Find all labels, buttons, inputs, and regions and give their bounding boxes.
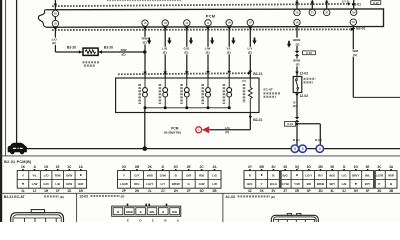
svg-text:R: R bbox=[249, 173, 252, 177]
PCM pin 1L bbox=[205, 20, 211, 26]
connector pinout table PCM(2) columns 2A-2P bbox=[118, 165, 222, 193]
svg-text:W/Y: W/Y bbox=[329, 182, 335, 186]
PCM pin 2M (x=354) bbox=[351, 9, 357, 15]
label EC-AT solenoid valve bbox=[264, 87, 281, 96]
PCM pin 1R (bottom x=297) bbox=[294, 19, 300, 25]
svg-text:LG/Y: LG/Y bbox=[146, 182, 153, 186]
svg-text:1D: 1D bbox=[67, 189, 72, 193]
svg-text:2D: 2D bbox=[200, 189, 205, 193]
divider before A1-03 panel bbox=[222, 193, 224, 222]
svg-text:A1-03: A1-03 bbox=[225, 195, 235, 199]
label B2-01 (top right) bbox=[352, 3, 361, 7]
svg-text:A: A bbox=[177, 219, 180, 222]
svg-text:5: 5 bbox=[294, 147, 296, 151]
PCM pin 1P bbox=[247, 19, 253, 25]
svg-text:1U: 1U bbox=[352, 21, 355, 24]
solenoid coil shift solenoid C bbox=[184, 78, 189, 108]
svg-text:3Q: 3Q bbox=[295, 165, 300, 169]
svg-text:(E): (E) bbox=[52, 41, 56, 45]
svg-text:B/W: B/W bbox=[66, 173, 72, 177]
svg-text:B: B bbox=[140, 210, 142, 214]
wire label B (F) bbox=[293, 101, 297, 108]
svg-text:BR: BR bbox=[307, 182, 312, 186]
svg-text:1R: 1R bbox=[295, 21, 298, 24]
wire label L/W bbox=[204, 47, 212, 55]
svg-text:P: P bbox=[378, 182, 380, 186]
connector B2-01 dashed boundary (top) bbox=[52, 2, 351, 6]
flow arrow beside L/B bbox=[167, 38, 171, 45]
svg-text:L/O: L/O bbox=[44, 173, 50, 177]
svg-text:(E): (E) bbox=[353, 53, 357, 57]
svg-text:3I: 3I bbox=[343, 165, 346, 169]
svg-text:(E): (E) bbox=[60, 195, 64, 199]
svg-text:3N: 3N bbox=[318, 189, 323, 193]
svg-text:1E: 1E bbox=[56, 165, 60, 169]
svg-text:R/Y: R/Y bbox=[318, 173, 323, 177]
svg-text:1G: 1G bbox=[44, 165, 49, 169]
wire label Y/L bbox=[225, 47, 233, 55]
svg-text:Y: Y bbox=[261, 182, 263, 186]
svg-text:2L: 2L bbox=[148, 189, 152, 193]
wire solenoid common to ground bbox=[144, 108, 146, 149]
svg-text:Y/W: Y/W bbox=[294, 182, 300, 186]
wire R/W PCM to solenoid valve (x=145.0) bbox=[143, 27, 147, 78]
svg-text:1A: 1A bbox=[79, 165, 84, 169]
ground point 4 bbox=[316, 145, 323, 152]
caption text fragment (top, component continuation) bbox=[107, 0, 182, 2]
svg-text:3O: 3O bbox=[307, 165, 312, 169]
svg-text:1P: 1P bbox=[249, 22, 252, 25]
label B2-21 (bottom) bbox=[253, 118, 262, 122]
svg-text:R/B: R/B bbox=[150, 210, 155, 214]
solenoid common ground bus bbox=[144, 106, 231, 109]
svg-text:R/B: R/B bbox=[199, 173, 205, 177]
svg-text:(E): (E) bbox=[184, 50, 188, 54]
wire L/W PCM to solenoid valve (x=208.0) bbox=[206, 27, 210, 78]
svg-text:G/Y B): G/Y B) bbox=[342, 0, 350, 3]
resistor R1 dropping resistor (B2-20) bbox=[83, 48, 98, 55]
wire Y/B from top into PCM (x=297) bbox=[295, 0, 299, 9]
label lockup solenoid (vertical Japanese) bbox=[223, 84, 226, 104]
svg-text:(E): (E) bbox=[271, 195, 275, 199]
solenoid coil shift solenoid B bbox=[163, 78, 168, 108]
section label B2-01 PCM(B) bbox=[4, 160, 32, 164]
svg-text:G: G bbox=[187, 182, 190, 186]
svg-text:B2-01 PCM(B): B2-01 PCM(B) bbox=[4, 160, 32, 164]
svg-text:B2-01: B2-01 bbox=[356, 27, 365, 31]
svg-text:1L: 1L bbox=[21, 189, 25, 193]
flow arrow beside R/W bbox=[147, 38, 151, 45]
svg-text:12-02: 12-02 bbox=[300, 94, 309, 98]
svg-text:3S: 3S bbox=[283, 165, 287, 169]
svg-text:PCM: PCM bbox=[206, 13, 215, 18]
svg-text:D: D bbox=[139, 219, 142, 222]
PCM pin 2S (top x=297) bbox=[294, 9, 300, 15]
svg-text:G/W: G/W bbox=[199, 182, 205, 186]
svg-text:R/G: R/G bbox=[134, 182, 140, 186]
svg-text:X-21: X-21 bbox=[287, 122, 293, 126]
svg-text:3P: 3P bbox=[307, 189, 312, 193]
wire G/O PCM to solenoid valve (x=186.8) bbox=[185, 27, 189, 78]
pin letters 12-02 table bbox=[127, 219, 180, 223]
wire label BR/B (F) bbox=[292, 58, 301, 66]
connector B2-21 dashed boundary bbox=[118, 71, 251, 74]
svg-text:2K: 2K bbox=[148, 165, 153, 169]
wire label L/B bbox=[161, 47, 169, 55]
svg-text:3W: 3W bbox=[259, 165, 264, 169]
ground point 5 bbox=[291, 145, 298, 152]
solenoid coil lockup solenoid bbox=[227, 78, 232, 108]
svg-text:2: 2 bbox=[198, 128, 200, 132]
wire label R/W bbox=[141, 37, 149, 45]
svg-text:1I: 1I bbox=[33, 165, 36, 169]
wire label R/W (mid) bbox=[121, 48, 127, 56]
svg-text:(E): (E) bbox=[296, 42, 300, 46]
svg-text:BR/W: BR/W bbox=[172, 182, 180, 186]
label B2-21 (top of solenoid box) bbox=[253, 72, 262, 76]
svg-text:W/G: W/G bbox=[329, 173, 336, 177]
svg-text:3Z: 3Z bbox=[248, 189, 252, 193]
svg-text:2F: 2F bbox=[187, 189, 191, 193]
section label B2-21 EC-AT solenoid valve (E) bbox=[4, 195, 64, 199]
label pressure control solenoid (vertical Japanese) bbox=[201, 84, 204, 104]
wire body-ground feed (x=16.5) bbox=[16, 0, 18, 145]
svg-text:B2-21: B2-21 bbox=[253, 118, 262, 122]
label PCM 1B-2B(KTM) bbox=[164, 126, 181, 134]
flow arrow beside L/W bbox=[210, 38, 214, 45]
label ATF thermosensor (vertical Japanese) bbox=[242, 80, 247, 103]
svg-text:B/LG: B/LG bbox=[270, 182, 278, 186]
wire label L/O bbox=[50, 37, 58, 45]
connector pinout table B2-01 PCM(B) bbox=[17, 165, 86, 193]
svg-text:X-12: X-12 bbox=[373, 1, 379, 5]
svg-text:B: B bbox=[162, 210, 164, 214]
connector face view A1-03 bbox=[271, 214, 318, 223]
svg-text:(E): (E) bbox=[143, 40, 147, 44]
svg-text:BR/Y: BR/Y bbox=[352, 173, 359, 177]
junction node ground bus bbox=[143, 146, 148, 151]
svg-text:G/R: G/R bbox=[186, 173, 192, 177]
label shift solenoid A (vertical Japanese) bbox=[138, 84, 141, 104]
svg-text:1N: 1N bbox=[228, 22, 231, 25]
svg-text:B (F): B (F) bbox=[293, 138, 300, 142]
label 12-02 (upper) bbox=[300, 72, 309, 76]
wire label BR/B (E) bbox=[292, 38, 301, 47]
svg-text:3G: 3G bbox=[354, 165, 359, 169]
label B2-20 (left) bbox=[67, 46, 76, 50]
ground point 3 bbox=[299, 145, 306, 152]
wire Y/L PCM to solenoid valve (x=229.2) bbox=[227, 27, 231, 78]
connector pinout table PCM(3) columns 3A-3Z bbox=[244, 165, 397, 193]
wire W/R PCM pin 1U to sheet right bbox=[352, 27, 400, 98]
PCM pin 1D (bottom, x=55) bbox=[52, 20, 58, 26]
wire to dropping resistor bbox=[55, 50, 83, 54]
svg-text:BR/B: BR/B bbox=[317, 182, 325, 186]
wire L/B PCM to solenoid valve (x=165.2) bbox=[163, 27, 167, 78]
svg-text:2A: 2A bbox=[213, 165, 218, 169]
svg-text:3B: 3B bbox=[389, 189, 394, 193]
svg-text:B: B bbox=[164, 219, 167, 222]
svg-text:EC-AT: EC-AT bbox=[264, 87, 273, 91]
wire up from PCM pin 2M (x=354) bbox=[352, 0, 356, 9]
svg-text:(E): (E) bbox=[227, 50, 231, 54]
svg-text:W/L: W/L bbox=[365, 173, 371, 177]
label B2-01 (bottom of PCM, right) bbox=[356, 27, 365, 31]
svg-text:12-02: 12-02 bbox=[300, 72, 309, 76]
svg-text:2N: 2N bbox=[135, 189, 140, 193]
ground bus line bbox=[25, 148, 400, 150]
svg-text:B2-21: B2-21 bbox=[253, 72, 262, 76]
svg-text:R/B: R/B bbox=[172, 210, 177, 214]
label dropping resistor (Japanese) bbox=[83, 62, 100, 65]
svg-text:(E): (E) bbox=[225, 130, 229, 134]
label 12-02 (lower) bbox=[300, 94, 309, 98]
svg-text:B/R: B/R bbox=[78, 182, 84, 186]
svg-text:2P: 2P bbox=[122, 189, 127, 193]
branch wire to ground point 4 bbox=[297, 124, 320, 145]
svg-text:E: E bbox=[127, 219, 129, 222]
svg-text:(E): (E) bbox=[206, 50, 210, 54]
svg-text:2C: 2C bbox=[200, 165, 205, 169]
connector B2-01 dashed boundary (bottom) bbox=[52, 28, 354, 31]
wire L/G thermistor return bbox=[209, 113, 252, 130]
svg-text:R/W: R/W bbox=[55, 173, 61, 177]
svg-text:1D: 1D bbox=[54, 22, 57, 25]
svg-text:3Y: 3Y bbox=[248, 165, 253, 169]
svg-text:3X: 3X bbox=[260, 189, 265, 193]
switch O/D hold switch (12-02) bbox=[293, 77, 302, 93]
EC-AT solenoid valve assembly box bbox=[116, 78, 259, 113]
connector face view B2-21 (solenoid valve connector) bbox=[11, 210, 64, 222]
svg-text:W/R: W/R bbox=[388, 173, 395, 177]
svg-text:4: 4 bbox=[319, 147, 321, 151]
svg-text:2O: 2O bbox=[122, 165, 127, 169]
wire label L/G bbox=[225, 126, 231, 134]
wire label G/Y (top right) bbox=[342, 0, 350, 3]
svg-text:Y: Y bbox=[22, 173, 24, 177]
PCM pin 1J bbox=[184, 20, 190, 26]
svg-text:L/R: L/R bbox=[212, 182, 218, 186]
section divider rule (upper) bbox=[0, 155, 400, 157]
off-sheet arrow to PCM (red) bbox=[196, 126, 210, 133]
junction node R/W bbox=[143, 50, 146, 53]
label hold switch (Japanese) bbox=[304, 79, 316, 83]
svg-text:X-16: X-16 bbox=[306, 51, 312, 55]
svg-text:3E: 3E bbox=[366, 165, 370, 169]
wire label L/Y bbox=[246, 47, 254, 55]
svg-text:1F: 1F bbox=[144, 22, 147, 25]
solenoid coil pressure control solenoid bbox=[206, 78, 211, 108]
PCM pin 2B (top, x=55) bbox=[52, 10, 58, 16]
svg-text:(F): (F) bbox=[293, 104, 297, 108]
wire label G/O bbox=[183, 47, 191, 55]
svg-text:L/G: L/G bbox=[212, 173, 218, 177]
PCM pin 1F bbox=[142, 20, 148, 26]
svg-text:2S: 2S bbox=[295, 12, 298, 15]
solenoid coil shift solenoid A bbox=[143, 78, 148, 108]
svg-text:B/W: B/W bbox=[66, 182, 72, 186]
svg-text:L/Y: L/Y bbox=[160, 182, 165, 186]
svg-text:B/G: B/G bbox=[247, 182, 253, 186]
svg-text:3K: 3K bbox=[330, 165, 335, 169]
PCM box (powertrain control module, continued from another sheet) bbox=[38, 9, 383, 27]
svg-text:G/Y: G/Y bbox=[134, 173, 139, 177]
svg-text:BR/B: BR/B bbox=[126, 210, 133, 214]
label B2-20 (right) bbox=[104, 46, 113, 50]
svg-text:2B: 2B bbox=[213, 189, 218, 193]
connector pinout table 12-02 O/D switch bbox=[112, 204, 181, 217]
svg-text:L/G: L/G bbox=[342, 173, 348, 177]
svg-text:1F: 1F bbox=[56, 189, 60, 193]
wire L/Y PCM to solenoid valve (x=250.3) bbox=[249, 27, 253, 78]
svg-text:3F: 3F bbox=[366, 189, 370, 193]
svg-text:2G: 2G bbox=[174, 165, 179, 169]
svg-text:2M: 2M bbox=[352, 11, 355, 14]
PCM pin 1N bbox=[226, 20, 232, 26]
svg-text:(E): (E) bbox=[122, 53, 126, 57]
wire from top into PCM (x=327) bbox=[325, 0, 329, 9]
wire BR/B segment (F) bbox=[295, 56, 299, 77]
svg-text:12-02: 12-02 bbox=[79, 195, 88, 199]
section label 12-02 O/D switch (F) bbox=[79, 195, 124, 199]
svg-text:2T: 2T bbox=[311, 11, 314, 14]
svg-text:(F): (F) bbox=[121, 195, 125, 199]
svg-text:3H: 3H bbox=[354, 189, 359, 193]
flow arrow beside L/Y bbox=[252, 38, 256, 45]
wire resistor to R/W junction bbox=[98, 50, 145, 54]
svg-text:B: B bbox=[390, 182, 393, 186]
svg-text:LG/Y: LG/Y bbox=[305, 173, 312, 177]
svg-text:GY/B: GY/B bbox=[282, 182, 290, 186]
svg-text:L/W: L/W bbox=[32, 182, 38, 186]
svg-text:3V: 3V bbox=[271, 189, 276, 193]
svg-text:L/B: L/B bbox=[342, 182, 348, 186]
svg-text:3J: 3J bbox=[342, 189, 346, 193]
flow arrow beside Y/L bbox=[231, 38, 235, 45]
svg-text:3U: 3U bbox=[271, 165, 276, 169]
label shift solenoid C (vertical Japanese) bbox=[180, 84, 183, 104]
wire L/O from sheet top through PCM pins bbox=[54, 0, 58, 52]
svg-text:1B-2B(KTM): 1B-2B(KTM) bbox=[164, 130, 181, 134]
PCM pin 2T (x=312) bbox=[309, 9, 315, 15]
svg-text:2E: 2E bbox=[325, 11, 328, 14]
svg-text:B/G: B/G bbox=[283, 173, 289, 177]
svg-text:Y/L: Y/L bbox=[32, 173, 37, 177]
svg-text:B: B bbox=[272, 173, 275, 177]
section label A1-03 (E) bbox=[225, 195, 275, 199]
svg-text:2H: 2H bbox=[174, 189, 179, 193]
divider between B2-21 and 12-02 panels bbox=[76, 193, 78, 222]
wire B below switch bbox=[295, 93, 299, 118]
svg-text:3D: 3D bbox=[377, 189, 382, 193]
svg-text:B2-20: B2-20 bbox=[67, 46, 76, 50]
svg-text:1J: 1J bbox=[33, 189, 37, 193]
svg-text:2J: 2J bbox=[161, 189, 165, 193]
svg-text:1B: 1B bbox=[79, 189, 84, 193]
label PCM bbox=[206, 13, 215, 18]
svg-text:LG/W: LG/W bbox=[120, 182, 128, 186]
svg-text:(E): (E) bbox=[248, 50, 252, 54]
svg-text:3M: 3M bbox=[318, 165, 323, 169]
svg-text:1C: 1C bbox=[67, 165, 72, 169]
inline connector (X-16) bbox=[295, 51, 316, 56]
svg-text:W/B: W/B bbox=[147, 173, 154, 177]
svg-text:G/W: G/W bbox=[160, 173, 166, 177]
svg-text:1H: 1H bbox=[44, 189, 49, 193]
svg-text:ATF: ATF bbox=[242, 80, 247, 83]
svg-text:1K: 1K bbox=[21, 165, 26, 169]
inline connector reference tag X-12 bbox=[371, 1, 381, 5]
svg-text:G/O: G/O bbox=[43, 182, 49, 186]
svg-text:1H: 1H bbox=[164, 22, 167, 25]
inline connector (X-21) bbox=[285, 117, 300, 126]
svg-text:3L: 3L bbox=[330, 189, 334, 193]
svg-text:Y: Y bbox=[123, 173, 125, 177]
svg-text:2B: 2B bbox=[54, 12, 57, 15]
body ground icon (car silhouette) bbox=[8, 143, 27, 155]
svg-text:2E: 2E bbox=[187, 165, 191, 169]
svg-text:B2-20: B2-20 bbox=[104, 46, 113, 50]
flow arrow beside BR/B bbox=[287, 41, 291, 48]
wire BR/B below PCM bbox=[296, 27, 298, 51]
wire from top into PCM (x=312) bbox=[311, 0, 315, 9]
svg-text:L/B: L/B bbox=[55, 182, 61, 186]
label shift solenoid B (vertical Japanese) bbox=[159, 84, 162, 104]
svg-text:(F): (F) bbox=[296, 63, 300, 67]
wire label B (right ground) bbox=[315, 138, 322, 142]
svg-text:1L: 1L bbox=[207, 22, 210, 25]
PCM pin 1H bbox=[162, 20, 168, 26]
svg-text:3R: 3R bbox=[295, 189, 300, 193]
flow arrow beside G/O bbox=[189, 38, 193, 45]
svg-text:B (F): B (F) bbox=[315, 138, 322, 142]
svg-text:3: 3 bbox=[302, 147, 304, 151]
svg-text:R/W: R/W bbox=[121, 48, 127, 52]
svg-text:B2-21 EC-AT: B2-21 EC-AT bbox=[4, 195, 26, 199]
svg-text:2M: 2M bbox=[135, 165, 140, 169]
thermistor ATF thermosensor bbox=[248, 78, 252, 113]
page frame left border bbox=[1, 0, 6, 222]
wire label B (left ground) bbox=[293, 138, 300, 142]
svg-text:(E): (E) bbox=[163, 50, 167, 54]
svg-text:B: B bbox=[175, 173, 178, 177]
svg-text:3A: 3A bbox=[389, 165, 394, 169]
svg-text:3C: 3C bbox=[377, 165, 382, 169]
svg-text:B: B bbox=[117, 210, 119, 214]
svg-text:W/Y: W/Y bbox=[365, 182, 371, 186]
svg-text:3T: 3T bbox=[283, 189, 287, 193]
PCM pin 2E (x=327) bbox=[324, 9, 330, 15]
svg-text:C: C bbox=[152, 219, 155, 222]
wire junction to grounds bbox=[296, 122, 299, 145]
svg-text:LG/R: LG/R bbox=[376, 173, 384, 177]
section divider rule (lower) bbox=[0, 192, 400, 194]
wire label W/R bbox=[351, 49, 359, 57]
svg-text:2I: 2I bbox=[161, 165, 164, 169]
PCM pin 1U (bottom x=353) bbox=[350, 19, 356, 25]
